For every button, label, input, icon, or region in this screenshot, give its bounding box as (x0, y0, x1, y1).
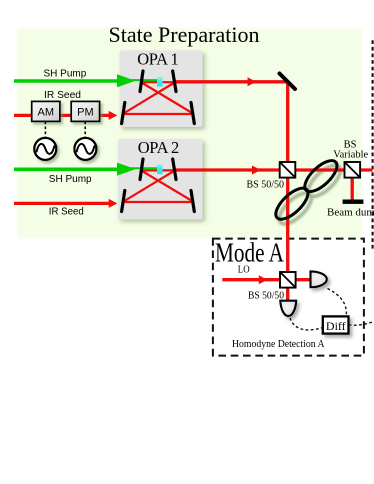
detector bottom (280, 301, 296, 316)
wire: OPA2 diagonal TR-BL (124, 171, 175, 202)
arrowhead LO (259, 275, 268, 284)
mode matching ellipse upper (300, 156, 342, 197)
wire: SH pump 2 thin intracavity (128, 167, 157, 169)
state preparation background panel (17, 28, 362, 238)
arrowhead SH pump 1 (117, 74, 136, 87)
mirror OPA1 bottom-right (191, 103, 194, 124)
wire: OPA1 diagonal TR-BL (124, 83, 175, 114)
mirror OPA1 bottom-left (122, 103, 125, 124)
OPA 1 box (120, 51, 203, 128)
PM modulator box (71, 101, 99, 121)
svg-text:Diff: Diff (326, 319, 346, 333)
wire: OPA1 top intracavity beam + output to mirror (140, 81, 177, 83)
svg-text:State Preparation: State Preparation (109, 22, 260, 47)
svg-text:BS 50/50: BS 50/50 (247, 180, 285, 191)
wire: IR seed 1 red beam (14, 114, 111, 117)
arrowhead IR seed 1 (109, 111, 118, 120)
svg-text:AM: AM (38, 106, 55, 118)
mode matching ellipses shadow (274, 160, 345, 229)
signal dotted line Diff to right (349, 322, 374, 326)
svg-text:IR Seed: IR Seed (49, 206, 84, 217)
wire: OPA2 diagonal TL-BR (142, 171, 194, 202)
mode B dashed edge (cropped) (372, 40, 374, 249)
svg-text:Homodyne Detection A: Homodyne Detection A (232, 339, 325, 350)
mirror OPA2 bottom-right (191, 191, 194, 212)
BS 50/50 mode A (280, 272, 296, 288)
svg-text:LO: LO (238, 265, 250, 276)
wire: OPA2 top intracavity beam (140, 169, 177, 171)
dashed connector AM to oscillator (44, 122, 46, 138)
wire: BS to right detector (294, 278, 311, 281)
wire: LO beam (222, 278, 282, 281)
signal dotted curve bottom detector to Diff (290, 318, 323, 330)
svg-text:OPA 1: OPA 1 (137, 50, 179, 69)
wire: OPA1 bottom intracavity beam (123, 113, 194, 115)
oscillator 2 (74, 138, 96, 160)
svg-text:IR Seed: IR Seed (44, 90, 81, 101)
wire: BS variable to beam dump (351, 176, 354, 200)
wire: IR seed 2 red beam (14, 202, 111, 205)
dashed connector PM to oscillator (84, 122, 86, 138)
wire: OPA1 diagonal TL-BR (142, 83, 194, 114)
mirror OPA2 top-right (173, 159, 176, 180)
wire: OPA2 output beam to right edge (175, 168, 373, 171)
svg-text:BS 50/50: BS 50/50 (248, 290, 284, 301)
arrowhead OPA2 output (252, 166, 261, 175)
mirror OPA1 top-right (173, 71, 176, 92)
wire: main vertical beam (286, 83, 289, 301)
OPA 2 box (118, 139, 203, 220)
Diff box (323, 316, 349, 333)
wire: SH pump 1 green beam (14, 79, 118, 83)
detector right (311, 271, 327, 287)
mode matching ellipse lower (271, 183, 313, 224)
crystal OPA1 (157, 77, 163, 87)
svg-text:OPA 2: OPA 2 (138, 138, 180, 157)
oscillator 1 (34, 138, 56, 160)
mirror OPA2 bottom-left (122, 191, 125, 212)
svg-text:Mode A: Mode A (215, 238, 284, 268)
svg-text:Beam dump: Beam dump (327, 206, 374, 218)
beam dump bar (343, 200, 364, 204)
AM modulator box (32, 101, 60, 121)
wire: SH pump 1 thin intracavity (128, 79, 157, 81)
BS variable (345, 162, 361, 178)
svg-text:SH Pump: SH Pump (44, 69, 87, 80)
svg-text:Variable: Variable (333, 149, 368, 160)
arrowhead SH pump 2 (117, 163, 136, 176)
arrowhead IR seed 2 (109, 199, 118, 208)
svg-text:SH Pump: SH Pump (49, 174, 92, 185)
wire: OPA2 bottom intracavity beam (123, 201, 194, 203)
Mode A dashed box (213, 239, 364, 356)
BS 50/50 state preparation (280, 162, 296, 178)
arrowhead OPA1 output (248, 77, 257, 86)
mirror OPA2 top-left (140, 159, 143, 180)
svg-text:PM: PM (77, 106, 94, 118)
signal dotted curve right detector to Diff (328, 289, 347, 317)
mirror steering (top right) (280, 74, 296, 90)
crystal OPA2 (157, 165, 163, 175)
wire: SH pump 2 green beam (14, 168, 118, 172)
mirror OPA1 top-left (140, 71, 143, 92)
